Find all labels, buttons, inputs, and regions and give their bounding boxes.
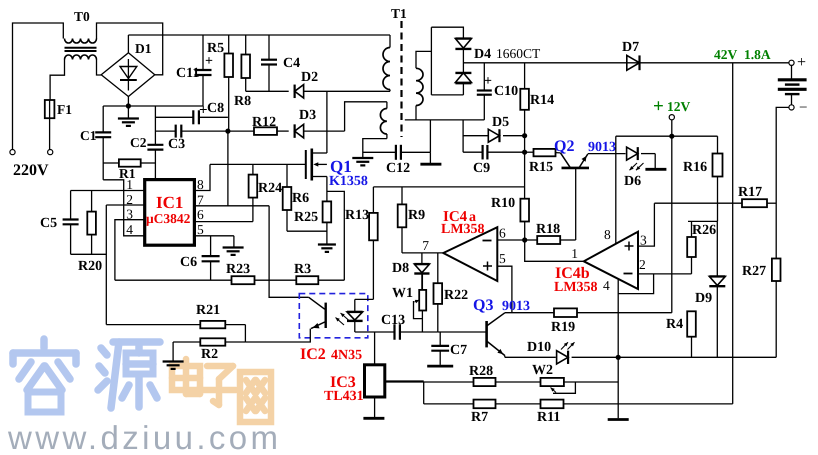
svg-text:6: 6 (499, 226, 506, 241)
svg-text:D8: D8 (392, 261, 409, 276)
svg-text:4: 4 (126, 222, 133, 237)
terminal L (10, 150, 15, 155)
capacitor C11 (202, 35, 204, 70)
svg-text:Q2: Q2 (554, 138, 574, 155)
T1 secondary winding (416, 68, 423, 105)
wire fuse to terminal (49, 118, 51, 149)
wire IC3 to R7 drop (423, 382, 425, 404)
svg-text:R14: R14 (530, 93, 554, 108)
node vcc junction (225, 129, 230, 134)
42V rail (463, 62, 788, 64)
opamp IC4b (584, 232, 638, 289)
svg-text:TL431: TL431 (324, 389, 364, 404)
primary ground line (103, 105, 203, 107)
pin5 ground (233, 236, 235, 247)
svg-text:C5: C5 (40, 216, 57, 231)
svg-text:7: 7 (197, 193, 204, 208)
svg-text:D5: D5 (492, 115, 509, 130)
svg-text:C4: C4 (283, 56, 300, 71)
svg-text:R17: R17 (738, 185, 762, 200)
resistor R17 (654, 202, 742, 204)
pin 1 wire (71, 190, 145, 192)
resistor R25 (323, 201, 332, 222)
svg-text:R26: R26 (692, 223, 716, 238)
svg-text:1.8A: 1.8A (744, 47, 771, 62)
capacitor C13 (393, 324, 395, 340)
pin 6 wire output (194, 221, 253, 223)
opto LED (354, 299, 356, 311)
svg-text:R20: R20 (78, 259, 102, 274)
bridge rectifier D1 (101, 53, 155, 97)
wire bridge bottom to gnd node (127, 97, 129, 107)
resistor R9 (401, 187, 403, 205)
svg-text:IC1: IC1 (156, 193, 183, 212)
capacitor C2 (154, 106, 156, 145)
diode D3 (295, 124, 304, 138)
svg-text:9013: 9013 (502, 299, 530, 314)
svg-text:C7: C7 (450, 343, 467, 358)
battery (791, 65, 793, 78)
svg-text:C11: C11 (176, 66, 199, 81)
pin 8 wire (194, 164, 210, 190)
diode D10 LED (557, 351, 568, 364)
wire T0 bottom left to fuse (50, 60, 64, 101)
svg-text:W2: W2 (532, 363, 553, 378)
svg-text:R6: R6 (292, 191, 309, 206)
svg-text:9013: 9013 (588, 140, 616, 155)
svg-text:R11: R11 (537, 410, 560, 425)
+12V terminal (669, 115, 674, 120)
IC1 uC3842 box (145, 180, 195, 246)
svg-text:D4: D4 (474, 47, 491, 62)
svg-text:1660CT: 1660CT (496, 46, 541, 61)
svg-text:C12: C12 (386, 161, 410, 176)
wire T0 bottom right to bridge (97, 60, 102, 76)
wire T0 top right to rail (97, 23, 163, 75)
svg-text:1: 1 (126, 177, 133, 192)
svg-text:3: 3 (126, 207, 133, 222)
watermark chinese chars (13, 339, 160, 408)
mosfet Q1 (305, 150, 307, 179)
svg-text:R15: R15 (529, 160, 553, 175)
capacitor C6 (210, 236, 212, 256)
W1 wiper (414, 301, 423, 319)
W2 wiper (553, 382, 575, 393)
+310V rail (128, 34, 390, 36)
terminal N (48, 150, 53, 155)
wire D3 to aux winding (345, 102, 387, 131)
svg-text:6: 6 (197, 207, 204, 222)
wire bridge top to +rail (127, 35, 129, 53)
opto transistor (325, 303, 327, 328)
resistor R18 (537, 236, 560, 244)
R26 top wire (688, 220, 718, 222)
wire C5/R20 bottoms (71, 253, 107, 255)
resistor R13 (372, 187, 374, 213)
wire battery minus (776, 107, 789, 258)
svg-text:2: 2 (126, 192, 133, 207)
svg-text:C13: C13 (381, 313, 405, 328)
svg-text:T0: T0 (74, 9, 90, 24)
svg-text:μC3842: μC3842 (146, 211, 191, 226)
svg-text:D9: D9 (695, 291, 712, 306)
svg-text:K1358: K1358 (329, 174, 368, 189)
diode D6 LED (627, 147, 638, 160)
resistor R27 (772, 259, 781, 282)
svg-text:C8: C8 (207, 101, 224, 116)
pin 7 wire vcc (194, 205, 269, 207)
svg-text:4: 4 (603, 278, 610, 293)
svg-text:R10: R10 (491, 196, 515, 211)
capacitor C7 (439, 332, 441, 346)
resistor R3 (296, 276, 318, 284)
wire +12 dot down to R19 (671, 136, 673, 313)
node D5 (522, 133, 527, 138)
wire left input (13, 23, 64, 150)
svg-text:R8: R8 (234, 94, 251, 109)
resistor R8 (245, 35, 247, 55)
svg-text:+: + (653, 96, 664, 117)
svg-text:R2: R2 (201, 347, 218, 362)
fuse F1 (45, 100, 55, 118)
resistor R12 (228, 130, 254, 132)
wire R21-R2 join (244, 325, 246, 342)
diode D8 (421, 253, 423, 264)
resistor R26 (691, 221, 693, 237)
svg-text:C2: C2 (130, 135, 147, 150)
opamp IC4a (443, 227, 497, 281)
wire +12V (671, 120, 673, 136)
resistor R28 (385, 381, 474, 383)
svg-text:−: − (799, 100, 807, 116)
wire 42V sense bottom (424, 403, 733, 405)
resistor R6 (286, 164, 288, 187)
diode D9 (716, 221, 718, 276)
optocoupler IC2 box (299, 294, 368, 338)
svg-text:220V: 220V (13, 162, 49, 179)
svg-text:C3: C3 (168, 137, 185, 152)
pin 5 wire gnd (194, 235, 234, 237)
svg-text:R5: R5 (207, 41, 224, 56)
output + terminal (789, 60, 794, 65)
svg-text:5: 5 (197, 222, 204, 237)
svg-text:C1: C1 (80, 128, 97, 143)
svg-text:D3: D3 (299, 108, 316, 123)
svg-text:7: 7 (422, 238, 429, 253)
svg-text:R13: R13 (345, 208, 369, 223)
svg-text:R9: R9 (408, 208, 425, 223)
wire sec rail up (429, 120, 431, 152)
opto collector wire (269, 206, 309, 297)
svg-text:R16: R16 (683, 160, 707, 175)
svg-text:R3: R3 (294, 262, 311, 277)
dual diode D4 (455, 37, 471, 39)
capacitor C4 (268, 35, 270, 60)
svg-text:D10: D10 (527, 340, 551, 355)
resistor R5 (228, 35, 230, 54)
wire Q1 drain (326, 91, 328, 152)
wire 42V sense down (732, 63, 734, 404)
transformer T1 core (400, 21, 402, 137)
sense line y187 (373, 186, 524, 188)
wire Q3 emitter (504, 356, 506, 358)
pot W2 (541, 378, 564, 386)
resistor R14 (524, 63, 526, 89)
resistor R1 (103, 162, 119, 164)
pin 3 wire (115, 220, 145, 281)
resistor R23 (232, 276, 255, 284)
svg-text:R19: R19 (551, 320, 575, 335)
IC4a output wire (402, 252, 443, 254)
resistor R7 (474, 400, 496, 409)
secondary gnd bar (429, 152, 431, 163)
capacitor C5 (70, 191, 72, 220)
svg-text:C6: C6 (180, 255, 197, 270)
pin 2 wire (106, 204, 144, 206)
gate drive line (210, 163, 306, 165)
pot W1 (421, 274, 423, 290)
wire pin2 down (105, 205, 107, 325)
opto arrows (336, 318, 345, 326)
wire aux to gnd (363, 139, 387, 157)
diode D5 (463, 120, 487, 136)
wire Q1 source sense (327, 191, 344, 280)
svg-text:IC2: IC2 (300, 346, 326, 363)
svg-text:W1: W1 (392, 286, 413, 301)
svg-text:12V: 12V (667, 99, 691, 114)
resistor R2 (173, 341, 200, 343)
pin2 wire (638, 273, 692, 275)
svg-text:C10: C10 (494, 84, 518, 99)
ground symbol bridge (127, 106, 129, 118)
resistor R15 (525, 151, 534, 153)
svg-text:D6: D6 (624, 174, 641, 189)
svg-text:R27: R27 (742, 264, 766, 279)
output - terminal (789, 105, 794, 110)
svg-text:R21: R21 (196, 303, 220, 318)
wire vcc vertical (228, 77, 230, 131)
diode D7 (627, 55, 640, 70)
IC4b output wire (525, 240, 584, 261)
svg-text:1: 1 (571, 246, 578, 261)
svg-text:R12: R12 (252, 115, 276, 130)
diode D2 (246, 90, 289, 92)
node primary dc- (126, 103, 131, 108)
transistor Q2 (562, 167, 590, 170)
svg-text:4N35: 4N35 (331, 348, 362, 363)
pin2 jog (618, 274, 653, 294)
T1 aux winding (386, 102, 388, 109)
svg-text:LM358: LM358 (441, 222, 485, 237)
pin6 wire (497, 239, 524, 241)
wire Q2 emitter to D6 (588, 153, 626, 155)
+12V rail (616, 135, 718, 137)
svg-text:+: + (205, 54, 213, 69)
capacitor C12 (363, 151, 396, 153)
secondary bottom rail (405, 119, 485, 121)
svg-text:R7: R7 (471, 410, 488, 425)
svg-text:C9: C9 (473, 161, 490, 176)
wire R17 to pin3 (638, 203, 654, 246)
svg-text:8: 8 (197, 177, 204, 192)
svg-text:R18: R18 (536, 222, 560, 237)
resistor R22 (437, 253, 439, 283)
wire Q1 source (326, 152, 328, 155)
wire pin8 IC4 (615, 136, 617, 243)
svg-text:D2: D2 (301, 70, 318, 85)
node C9 (522, 150, 527, 155)
resistor R24 (252, 164, 254, 174)
svg-text:R28: R28 (469, 364, 493, 379)
IC3 TL431 box (374, 332, 376, 365)
transistor Q3 (485, 321, 488, 347)
pin5 wire (497, 266, 512, 313)
wire D6 to gnd (654, 154, 656, 168)
svg-text:R24: R24 (258, 181, 282, 196)
resistor R16 (717, 136, 719, 153)
svg-text:R23: R23 (226, 262, 250, 277)
svg-text:3: 3 (640, 233, 647, 248)
svg-text:5: 5 (499, 251, 506, 266)
wire pin4 net (103, 180, 145, 236)
capacitor C8 (155, 116, 193, 118)
svg-text:T1: T1 (391, 6, 407, 21)
svg-text:42V: 42V (714, 47, 738, 62)
capacitor C1 (102, 106, 104, 132)
svg-text:R25: R25 (294, 210, 318, 225)
svg-text:+: + (484, 74, 492, 89)
resistor R11 (541, 400, 564, 409)
pin4 ground wire (617, 279, 619, 419)
ground R25 (318, 243, 336, 245)
svg-text:Q3: Q3 (473, 297, 493, 314)
svg-text:www.dziuu.com: www.dziuu.com (7, 419, 281, 455)
capacitor C10 (483, 63, 485, 91)
wire R6 bottom (287, 230, 327, 232)
resistor R19 (505, 312, 554, 314)
svg-text:R22: R22 (444, 288, 468, 303)
primary gnd 2 (352, 157, 373, 159)
wire LED anode to R13 (355, 298, 374, 300)
pin3 line to R23 R3 (115, 279, 232, 281)
svg-text:D1: D1 (135, 41, 152, 56)
svg-text:R4: R4 (666, 317, 683, 332)
resistor R21 (106, 324, 200, 326)
capacitor C3 (155, 130, 175, 132)
feedback line (355, 331, 395, 333)
svg-text:+: + (797, 54, 806, 71)
svg-text:2: 2 (639, 257, 646, 272)
svg-text:8: 8 (604, 227, 611, 242)
svg-text:F1: F1 (57, 102, 72, 117)
resistor R4 (687, 311, 696, 336)
capacitor C9 (462, 136, 464, 153)
R2 left ground (172, 342, 174, 361)
svg-text:D7: D7 (622, 40, 639, 55)
T1 primary winding (389, 35, 391, 48)
resistor R20 (91, 191, 93, 212)
wire sec to D4 (430, 27, 432, 95)
svg-text:LM358: LM358 (554, 280, 598, 295)
resistor R10 (525, 239, 538, 241)
